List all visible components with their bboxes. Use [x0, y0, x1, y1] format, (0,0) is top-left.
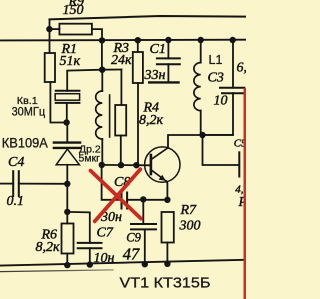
wire bus drop to mid rail	[101, 40, 103, 69]
node R9 right on bus	[99, 37, 105, 43]
wire C8 right to emitter	[127, 199, 167, 201]
wire crystal bottom	[66, 103, 68, 123]
node base rail R3	[133, 162, 139, 168]
svg-text:C3: C3	[208, 71, 224, 86]
wire R9 left lead	[50, 28, 60, 30]
wire C9 top lead	[142, 199, 144, 224]
node L1 on bus	[198, 37, 204, 43]
svg-text:5мкг: 5мкг	[79, 152, 101, 164]
wire C4 right lead	[19, 183, 68, 185]
svg-text:8,2к: 8,2к	[139, 113, 164, 128]
wire C7 branch	[67, 212, 90, 243]
inductor Др.2	[96, 91, 103, 139]
wire C3 top lead	[232, 39, 234, 87]
node C9 tap	[140, 196, 146, 202]
svg-text:C9: C9	[126, 230, 141, 244]
node bus C7	[87, 261, 93, 267]
node L1 bottom	[199, 132, 205, 138]
wire bottom bus	[0, 260, 244, 266]
svg-text:300: 300	[179, 219, 201, 234]
svg-text:Кв.1: Кв.1	[17, 95, 38, 107]
wire R9 right lead	[92, 29, 102, 40]
red X stroke B	[95, 169, 141, 221]
resistor R9	[59, 24, 92, 35]
node bus R7	[164, 261, 170, 267]
node emitter	[164, 197, 170, 203]
wire emitter lead	[166, 181, 167, 200]
svg-text:150: 150	[63, 3, 84, 18]
node base rail coil	[99, 162, 105, 168]
emitter arrowhead	[159, 175, 166, 181]
resistor R6	[62, 224, 74, 254]
wire Др.2 top lead	[101, 70, 103, 91]
node C3 on bus	[230, 37, 236, 43]
resistor R7	[162, 212, 174, 243]
svg-text:47: 47	[123, 245, 140, 264]
node bus C9	[142, 261, 148, 267]
wire L1 bottom lead	[200, 111, 202, 135]
core bar Др.2	[109, 95, 111, 137]
wire C8 branch	[102, 165, 122, 200]
node R3 on bus	[135, 37, 141, 43]
wire lower partial rail	[0, 270, 113, 272]
svg-text:C1: C1	[150, 42, 166, 57]
wire R3 top lead	[137, 40, 139, 52]
varicap triangle	[56, 149, 79, 165]
red edge bar	[244, 88, 247, 299]
resistor R4	[115, 105, 126, 136]
transistor VT1 emitter stroke	[152, 170, 166, 181]
node C1 on bus	[165, 37, 171, 43]
svg-text:6,8: 6,8	[237, 61, 247, 76]
svg-text:0.1: 0.1	[7, 194, 25, 209]
wire varicap bottom lead	[66, 165, 68, 184]
svg-text:C4: C4	[8, 155, 24, 170]
node mid rail coil top	[99, 67, 105, 73]
capacitor C5 plate at edge	[238, 152, 240, 176]
wire base rail	[102, 164, 151, 166]
wire R4 top lead	[120, 70, 122, 106]
wire C4 left lead	[0, 183, 13, 185]
capacitor C4	[13, 171, 19, 196]
wire C9 bottom lead	[144, 229, 146, 264]
svg-text:33н: 33н	[144, 68, 166, 83]
capacitor C1	[157, 58, 180, 64]
resistor R3	[133, 52, 143, 83]
resistor R1	[45, 53, 55, 82]
wire C1 top lead	[167, 39, 169, 58]
wire main top bus	[0, 39, 246, 42]
wire top rail	[50, 16, 247, 19]
svg-text:R7: R7	[180, 203, 198, 218]
capacitor C8	[122, 193, 128, 209]
wire C3 bottom lead	[203, 93, 234, 135]
transistor VT1 collector stroke	[152, 148, 169, 159]
sans labels	[2, 95, 211, 292]
wire crystal top to mid rail	[67, 70, 121, 91]
varicap КВ109А bars	[54, 143, 80, 148]
transistor VT1 circle	[145, 147, 180, 182]
ground bar (C1)	[149, 81, 178, 83]
inductor L1	[194, 63, 201, 111]
capacitor C3	[220, 88, 244, 94]
node varicap C4	[64, 181, 70, 187]
wire L1 bottom to edge capacitor	[203, 135, 240, 165]
svg-text:24к: 24к	[111, 53, 132, 68]
node R6 C7	[64, 209, 70, 215]
wire varicap column to R6 node	[66, 184, 68, 212]
wire R4 bottom lead	[120, 136, 122, 166]
svg-text:C7: C7	[97, 225, 114, 240]
wire varicap top lead	[66, 123, 68, 142]
svg-text:L1: L1	[209, 53, 223, 67]
wire R6 top lead	[66, 212, 68, 224]
svg-text:8,2к: 8,2к	[36, 240, 61, 255]
svg-text:КВ109А: КВ109А	[2, 134, 49, 150]
wire C1 bottom lead	[167, 64, 169, 81]
capacitor C9	[131, 224, 156, 229]
svg-text:10: 10	[214, 94, 228, 109]
node bus R6	[64, 262, 70, 268]
node base rail R4	[118, 162, 124, 168]
wire L1 top lead	[200, 40, 202, 63]
red X stroke A	[91, 171, 142, 219]
transistor VT1 base bar	[150, 155, 153, 174]
wire R7 bottom lead	[166, 243, 168, 264]
wire R1 column	[49, 19, 51, 53]
node crystal junction	[63, 119, 69, 125]
svg-text:51к: 51к	[60, 54, 81, 69]
wire R3 bottom column	[137, 83, 139, 165]
capacitor C7	[78, 243, 102, 248]
svg-text:30МГц: 30МГц	[12, 107, 46, 119]
crystal Кв.1	[56, 91, 80, 103]
node R9 left tap	[46, 26, 52, 32]
wire Др.2 bottom lead	[101, 139, 103, 165]
svg-text:VT1 КТ315Б: VT1 КТ315Б	[120, 275, 211, 291]
wire collector to L1 bottom	[168, 135, 233, 148]
wire C7 bottom lead	[89, 248, 91, 265]
wire R6 bottom lead	[66, 254, 68, 266]
